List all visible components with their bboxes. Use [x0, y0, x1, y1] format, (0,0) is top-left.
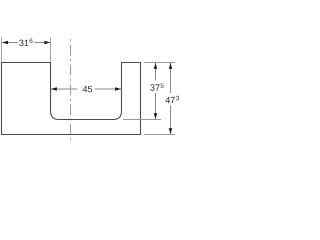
arrow 47.3 up [169, 63, 172, 69]
extension line 31.6 left [1, 38, 3, 62]
arrow 45 right [115, 87, 121, 90]
dimension line 31.6 [2, 42, 17, 44]
centerline (dash-dot symmetry axis) [70, 39, 72, 141]
label 37.5 [150, 83, 163, 90]
arrow 45 left [51, 87, 57, 90]
arrow 47.3 down [169, 128, 172, 134]
dimension line 37.5 [155, 63, 157, 81]
label 45 [83, 86, 92, 92]
arrow 37.5 down [154, 113, 157, 119]
countertop outline with cutout [2, 63, 141, 135]
extension line plate bottom (for 47.3) [144, 134, 175, 136]
extension line 31.6 right [50, 38, 52, 62]
arrow 31.6 left [2, 41, 8, 44]
dimension line 45 [51, 88, 77, 90]
extension line cutout bottom (for 37.5) [123, 119, 161, 121]
dimension line 47.3 [170, 63, 172, 93]
label 47.3 [166, 96, 179, 103]
arrow 31.6 right [44, 41, 50, 44]
label 31.6 [19, 39, 32, 46]
extension line top right (for 37.5 and 47.3) [144, 62, 175, 64]
arrow 37.5 up [154, 63, 157, 69]
